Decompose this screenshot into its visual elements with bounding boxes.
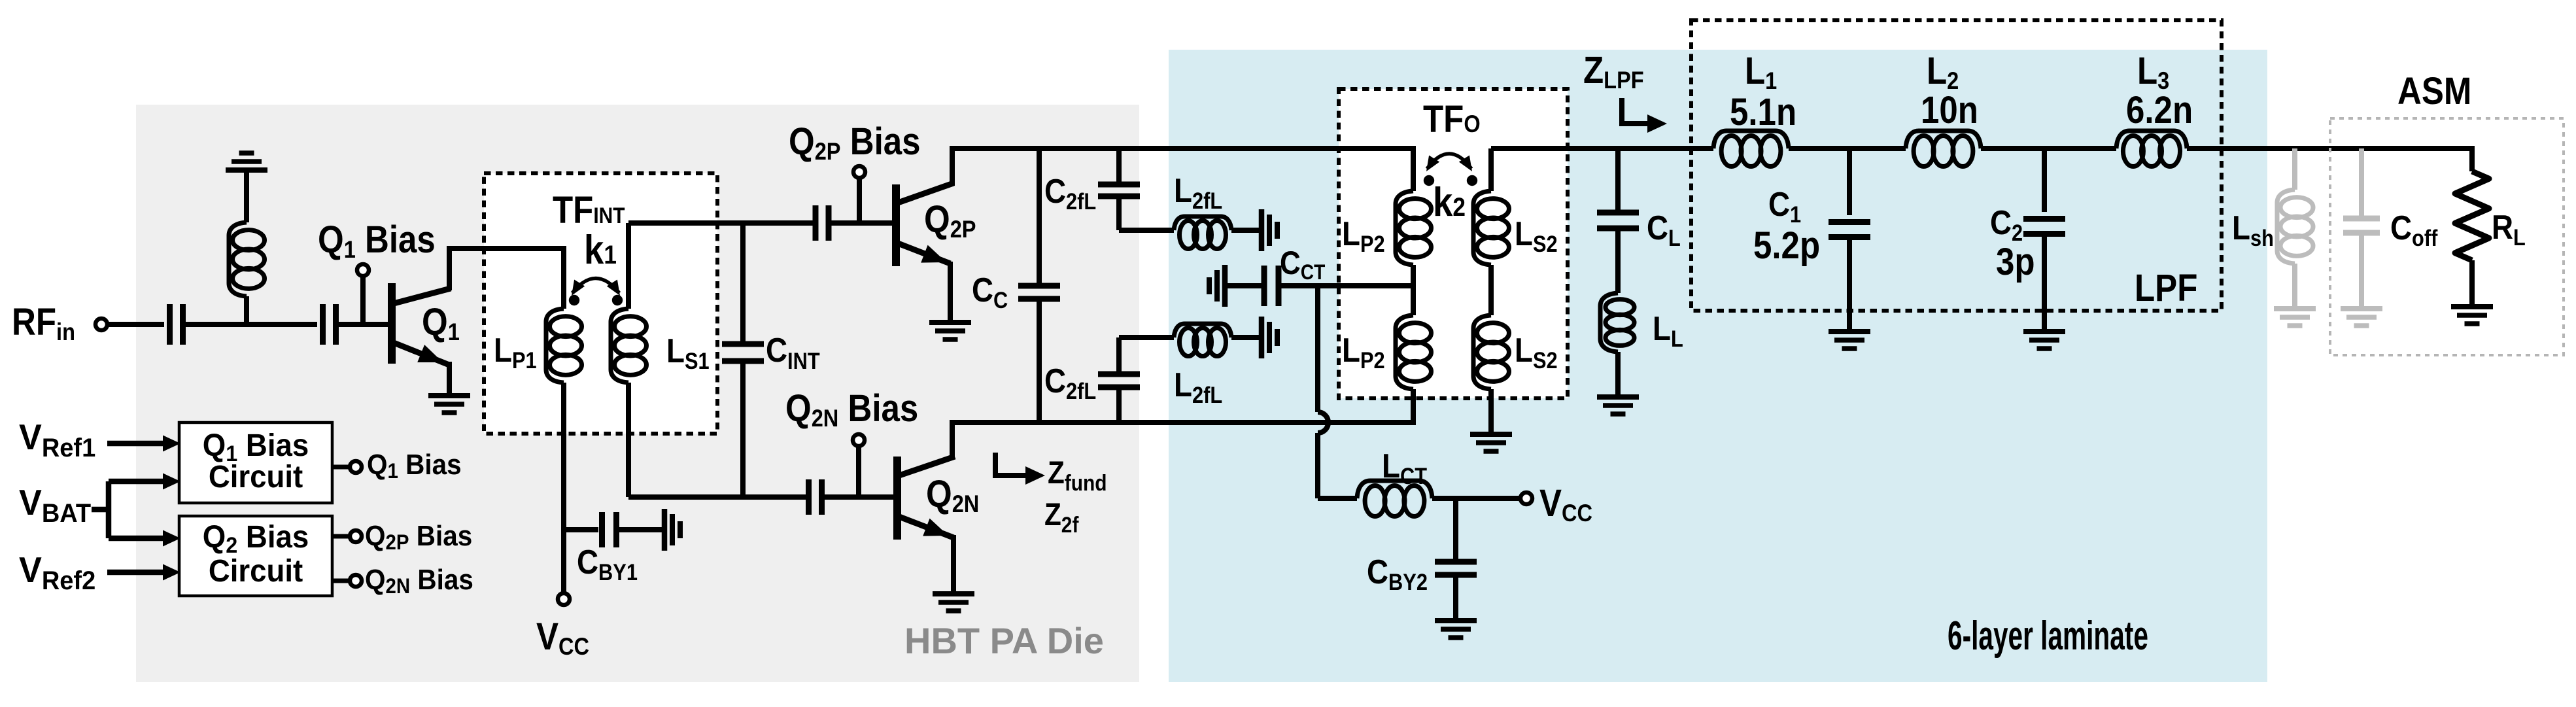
svg-text:6.2n: 6.2n (2126, 89, 2193, 131)
svg-text:Q2N Bias: Q2N Bias (365, 563, 473, 598)
svg-text:Q2P Bias: Q2P Bias (789, 120, 921, 165)
svg-text:HBT PA Die: HBT PA Die (904, 620, 1104, 661)
svg-text:3p: 3p (1996, 241, 2035, 283)
svg-text:Q1 Bias: Q1 Bias (367, 448, 462, 483)
svg-text:Q1 Bias: Q1 Bias (318, 218, 436, 264)
svg-text:Q2 Bias: Q2 Bias (203, 519, 309, 558)
svg-text:5.1n: 5.1n (1730, 91, 1796, 133)
svg-text:Circuit: Circuit (209, 553, 303, 588)
svg-text:LPF: LPF (2135, 267, 2197, 309)
svg-text:ASM: ASM (2397, 70, 2471, 112)
svg-text:6-layer laminate: 6-layer laminate (1948, 614, 2148, 659)
svg-text:Circuit: Circuit (209, 459, 303, 494)
svg-text:Q2P Bias: Q2P Bias (365, 519, 472, 554)
svg-text:5.2p: 5.2p (1753, 224, 1820, 267)
svg-text:Q2N Bias: Q2N Bias (785, 387, 918, 432)
svg-text:10n: 10n (1921, 89, 1978, 131)
